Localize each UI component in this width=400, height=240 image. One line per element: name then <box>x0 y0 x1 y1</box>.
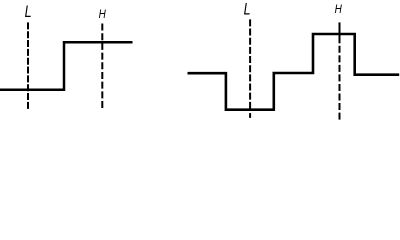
dashed threshold line H (right diagram): long dash merging into high pulse <box>339 22 341 43</box>
dashed threshold line H (right diagram), lower dashed part <box>339 46 341 120</box>
svg-text:L: L <box>25 3 32 21</box>
dashed threshold line L (left diagram) <box>27 22 29 109</box>
left waveform trace (low-to-high step) <box>0 42 133 89</box>
dashed threshold line H (left diagram) <box>101 24 103 109</box>
svg-text:H: H <box>335 2 342 16</box>
dashed threshold line L (right diagram), final dash below low line <box>249 113 251 118</box>
svg-text:L: L <box>244 1 251 19</box>
right waveform trace (mid-low-mid-high-mid pulses) <box>188 34 400 110</box>
svg-text:H: H <box>99 7 106 21</box>
dashed threshold line L (right diagram), upper dashed part <box>249 19 251 110</box>
